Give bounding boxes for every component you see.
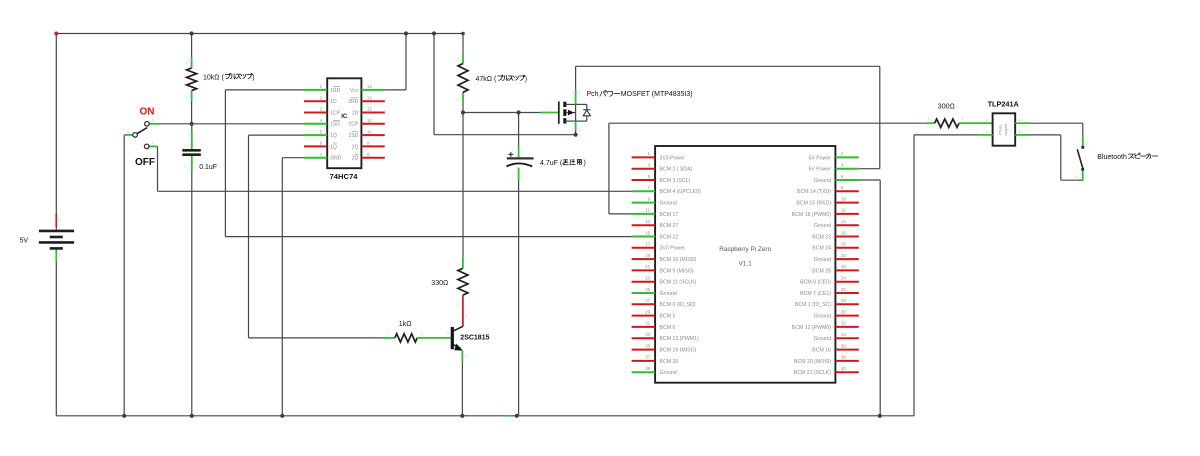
svg-text:2: 2 [512, 174, 514, 178]
svg-text:20: 20 [841, 253, 846, 258]
svg-text:1kΩ: 1kΩ [399, 321, 412, 328]
svg-text:Ground: Ground [660, 291, 677, 297]
svg-text:1RD: 1RD [330, 88, 340, 94]
svg-text:1: 1 [388, 332, 390, 336]
wire 10k pullup column [191, 34, 193, 124]
svg-text:BCM 26: BCM 26 [660, 359, 679, 365]
node gate 47k junction [461, 110, 465, 114]
node drain branch [432, 31, 436, 35]
svg-text:37: 37 [645, 355, 650, 360]
node 47k rail corner [461, 32, 465, 36]
svg-text:3V3 Power: 3V3 Power [660, 246, 686, 252]
svg-text:2D: 2D [352, 110, 359, 116]
wire BCM17 to 300 ohm row [609, 123, 925, 214]
label 300 ohm [938, 103, 955, 110]
svg-text:2RD: 2RD [348, 99, 358, 105]
node 10k top [190, 31, 194, 35]
svg-text:2: 2 [457, 59, 459, 63]
svg-text:21: 21 [645, 264, 650, 269]
label 330 ohm [431, 280, 448, 287]
svg-text:BCM 25: BCM 25 [812, 268, 831, 274]
transistor Q1 Pch power MOSFET [540, 90, 590, 131]
svg-text:15: 15 [645, 230, 650, 235]
svg-text:BCM 2 ( SDA): BCM 2 ( SDA) [660, 167, 693, 173]
svg-text:16: 16 [841, 230, 846, 235]
svg-text:Vcc: Vcc [350, 88, 359, 94]
op-amp U1 74HC74 flip-flop IC [304, 78, 385, 168]
svg-text:31: 31 [645, 321, 650, 326]
svg-text:GND: GND [330, 156, 342, 162]
resistor 330 ohm [458, 257, 468, 327]
svg-text:Pch: Pch [587, 91, 599, 98]
switch SW1 ON/OFF [124, 118, 158, 149]
svg-text:1: 1 [457, 98, 459, 102]
node rail switch common [122, 414, 126, 418]
svg-text:3: 3 [466, 355, 468, 359]
label OFF [135, 157, 155, 168]
wire rail down to MOSFET drain row [434, 34, 576, 135]
wire TLP241A output bottom to speaker switch bottom [1030, 135, 1082, 180]
svg-text:Ground: Ground [660, 370, 677, 376]
svg-text:1: 1 [928, 117, 930, 121]
svg-text:2Q: 2Q [352, 156, 359, 162]
svg-text:2: 2 [457, 262, 459, 266]
svg-text:1: 1 [185, 144, 187, 148]
svg-text:36: 36 [841, 343, 846, 348]
node rail emitter [460, 414, 464, 418]
svg-text:BCM 20 (MOSI): BCM 20 (MOSI) [794, 359, 831, 365]
wire top 5V rail [56, 33, 463, 35]
svg-text:1Q: 1Q [330, 144, 337, 150]
resistor 300 ohm [925, 119, 992, 127]
svg-text:1: 1 [186, 97, 188, 101]
svg-text:Ground: Ground [814, 314, 831, 320]
svg-text:2SD: 2SD [349, 133, 359, 139]
svg-text:coupler: coupler [1004, 123, 1008, 136]
svg-text:1: 1 [457, 303, 459, 307]
svg-text:27: 27 [645, 298, 650, 303]
svg-text:33: 33 [645, 332, 650, 337]
wire 74HC74 pin5 1Q left, down, to 1k resistor [249, 135, 383, 338]
svg-text:1: 1 [512, 148, 514, 152]
wire TLP241A output top to speaker switch [1030, 123, 1083, 136]
svg-text:47kΩ (: 47kΩ ( [476, 76, 497, 83]
svg-text:2CP: 2CP [349, 122, 359, 128]
svg-text:2: 2 [185, 165, 187, 169]
svg-text:BCM 15 (RXD): BCM 15 (RXD) [796, 201, 831, 207]
svg-text:BCM 11 (SCLK): BCM 11 (SCLK) [660, 280, 697, 286]
wire TLP241A cathode down to ground rail [914, 135, 979, 416]
svg-text:BCM 9 (MISO): BCM 9 (MISO) [660, 268, 694, 274]
svg-text:24: 24 [841, 276, 846, 281]
svg-text:2: 2 [962, 117, 964, 121]
svg-text:Bluetooth: Bluetooth [1097, 154, 1127, 161]
label Pch power MOSFET MTP4835I3 [587, 91, 693, 99]
svg-text:BCM 6: BCM 6 [660, 325, 676, 331]
svg-text:330Ω: 330Ω [431, 280, 448, 287]
svg-text:32: 32 [841, 321, 846, 326]
wire battery negative down [55, 248, 57, 415]
svg-text:2: 2 [421, 332, 423, 336]
svg-text:TLP241A: TLP241A [988, 99, 1020, 108]
svg-text:14: 14 [841, 219, 846, 224]
node rail 4.7uF [515, 414, 519, 418]
svg-text:IC: IC [341, 113, 348, 120]
svg-text:4.7uF (: 4.7uF ( [540, 160, 563, 167]
label ON [140, 107, 155, 118]
svg-text:Raspberry Pi Zero: Raspberry Pi Zero [719, 246, 771, 253]
svg-text:Photo: Photo [999, 125, 1003, 135]
svg-text:BCM 17: BCM 17 [660, 212, 679, 218]
svg-text:0.1uF: 0.1uF [199, 164, 217, 171]
svg-text:12: 12 [367, 107, 372, 112]
label 10k ohm pullup [203, 73, 255, 81]
wire MOSFET drain bottom lead [575, 126, 577, 135]
resistor 1k [382, 334, 450, 342]
svg-text:13: 13 [645, 219, 650, 224]
label 4.7uF delay [540, 159, 586, 166]
node Vcc rail [404, 31, 408, 35]
wire ON contact to junction [159, 123, 192, 125]
svg-text:3: 3 [579, 91, 581, 95]
svg-text:10: 10 [841, 196, 846, 201]
svg-text:28: 28 [841, 298, 846, 303]
wire 74HC74 pin1 1RD left and down to BCM22 row [225, 90, 304, 237]
svg-text:26: 26 [841, 287, 846, 292]
svg-text:25: 25 [645, 287, 650, 292]
svg-text:11: 11 [646, 208, 651, 213]
svg-text:23: 23 [645, 276, 650, 281]
svg-text:BCM 0 (ID_SD): BCM 0 (ID_SD) [660, 302, 696, 308]
wire 4.7uF column [518, 113, 520, 416]
wire 74HC74 pin7 GND down to rail [282, 158, 304, 416]
svg-text:1D: 1D [330, 99, 337, 105]
switch SW2 bluetooth speaker [1075, 136, 1090, 181]
svg-text:BCM 7 (CE1): BCM 7 (CE1) [800, 291, 831, 297]
transistor Q2 2SC1815 [451, 326, 463, 416]
svg-text:BCM 24: BCM 24 [812, 246, 831, 252]
svg-text:38: 38 [841, 355, 846, 360]
wire BCM22 row to Pi [225, 236, 631, 238]
svg-text:10: 10 [367, 129, 372, 134]
svg-text:30: 30 [841, 309, 846, 314]
svg-text:BCM 16: BCM 16 [812, 347, 831, 353]
svg-text:BCM 23: BCM 23 [812, 234, 831, 240]
svg-text:BCM 10 (MOSI): BCM 10 (MOSI) [660, 257, 697, 263]
svg-text:BCM 13 (PWM1): BCM 13 (PWM1) [660, 336, 699, 342]
svg-text:35: 35 [645, 343, 650, 348]
label 1k ohm [399, 321, 412, 328]
svg-text:2: 2 [60, 253, 62, 257]
svg-text:22: 22 [841, 264, 846, 269]
svg-text:1: 1 [545, 107, 547, 111]
svg-text:40: 40 [841, 366, 846, 371]
svg-text:MOSFET (MTP4835I3): MOSFET (MTP4835I3) [621, 91, 693, 98]
svg-text:Ground: Ground [814, 336, 831, 342]
svg-text:BCM 14 (TXD): BCM 14 (TXD) [797, 189, 831, 195]
wire MOSFET source up and over to Pi pin4 5V [576, 66, 880, 168]
svg-text:2: 2 [579, 128, 581, 132]
svg-text:Ground: Ground [814, 178, 831, 184]
svg-text:2SC1815: 2SC1815 [460, 334, 489, 341]
svg-text:19: 19 [645, 253, 650, 258]
svg-text:BCM 19 (MISO): BCM 19 (MISO) [660, 347, 697, 353]
pin number ticks [60, 59, 964, 359]
battery 5V [20, 231, 75, 249]
node ON junction [190, 122, 194, 126]
node rail Pi ground [878, 414, 882, 418]
svg-text:11: 11 [367, 118, 372, 123]
svg-text:BCM 1 (ID_SC): BCM 1 (ID_SC) [795, 302, 831, 308]
node battery top rail corner [54, 32, 58, 36]
svg-text:2: 2 [186, 61, 188, 65]
svg-text:BCM 27: BCM 27 [660, 223, 679, 229]
svg-text:V1.1: V1.1 [739, 260, 753, 267]
capacitor 4.7uF polarized [507, 146, 534, 181]
svg-text:): ) [252, 74, 254, 81]
svg-text:2: 2 [446, 332, 448, 336]
svg-text:BCM 4 (GPCLK0): BCM 4 (GPCLK0) [660, 189, 701, 195]
IC U2 Raspberry Pi Zero [632, 146, 859, 383]
wire switch common down to ground rail [123, 135, 125, 416]
svg-text:29: 29 [645, 309, 650, 314]
svg-text:BCM 5: BCM 5 [660, 314, 676, 320]
svg-text:1: 1 [60, 218, 62, 222]
node rail 74HC74 GND [280, 414, 284, 418]
label bluetooth speaker [1097, 153, 1158, 161]
svg-text:1CP: 1CP [330, 110, 340, 116]
svg-text:OFF: OFF [135, 157, 155, 168]
svg-text:): ) [525, 76, 527, 83]
svg-text:BCM 8 (CE0): BCM 8 (CE0) [800, 280, 831, 286]
svg-text:14: 14 [367, 84, 372, 89]
svg-text:1: 1 [466, 314, 468, 318]
node rail 0.1uF [190, 414, 194, 418]
svg-text:BCM 22: BCM 22 [660, 234, 679, 240]
wire battery positive up [55, 34, 57, 230]
svg-text:10kΩ (: 10kΩ ( [203, 74, 224, 81]
svg-text:13: 13 [367, 95, 372, 100]
svg-text:BCM 18 (PWM0): BCM 18 (PWM0) [792, 212, 831, 218]
svg-text:300Ω: 300Ω [938, 103, 955, 110]
label 2SC1815 [460, 334, 489, 341]
svg-text:17: 17 [645, 242, 650, 247]
svg-text:1SD: 1SD [330, 122, 340, 128]
svg-text:74HC74: 74HC74 [330, 172, 359, 181]
wire junction to 74HC74 pin4 1SD [192, 123, 304, 125]
wire gate node to MOSFET gate [463, 112, 540, 114]
svg-text:12: 12 [841, 208, 846, 213]
label TLP241A [988, 99, 1020, 108]
label 47k ohm pullup [476, 75, 528, 83]
node gate 4.7uF junction [517, 110, 521, 114]
svg-text:): ) [584, 160, 586, 167]
svg-text:39: 39 [645, 366, 650, 371]
svg-text:BCM 3 (SCL): BCM 3 (SCL) [660, 178, 691, 184]
svg-text:Ground: Ground [814, 223, 831, 229]
svg-text:Ground: Ground [660, 201, 677, 207]
relay U3 TLP241A photocoupler [979, 113, 1029, 145]
node MOSFET drain corner [574, 133, 578, 137]
svg-text:3V3 Power: 3V3 Power [660, 155, 686, 161]
resistor 47k pullup [458, 55, 468, 104]
svg-text:34: 34 [841, 332, 846, 337]
wire bottom ground rail [56, 415, 914, 417]
wire Pi pin6 ground down to rail [859, 180, 880, 416]
label 74HC74 [330, 172, 359, 181]
svg-text:BCM 21 (SCLK): BCM 21 (SCLK) [794, 370, 831, 376]
wire 74HC74 pin14 Vcc up to rail [385, 34, 406, 90]
svg-text:ON: ON [140, 107, 155, 118]
wire OFF contact down then right to BCM4 [158, 146, 632, 191]
svg-text:BCM 12 (PWM0): BCM 12 (PWM0) [792, 325, 831, 331]
wire 0.1uF column down to ground rail [191, 124, 193, 416]
svg-text:2Q: 2Q [352, 144, 359, 150]
svg-text:5V Power: 5V Power [809, 167, 832, 173]
wire 47k pullup column and gate node down to 330 ohm [462, 34, 464, 257]
resistor 10k pullup [187, 57, 197, 101]
svg-text:5V: 5V [20, 238, 29, 245]
svg-text:Ground: Ground [814, 257, 831, 263]
capacitor 0.1uF [182, 132, 217, 172]
svg-text:5V Power: 5V Power [809, 155, 832, 161]
svg-text:18: 18 [841, 242, 846, 247]
svg-text:1Q: 1Q [330, 133, 337, 139]
